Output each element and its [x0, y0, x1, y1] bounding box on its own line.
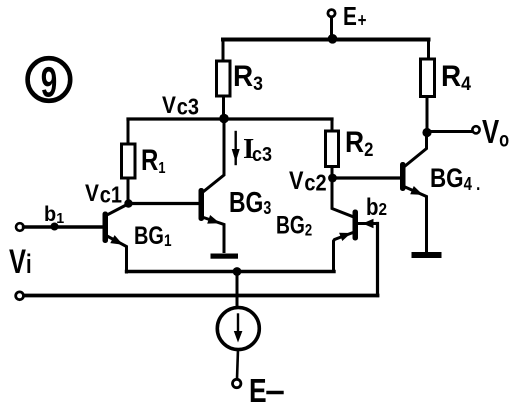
wire rail to R4: [427, 41, 430, 59]
transistor BG4: [400, 133, 480, 252]
terminal Vi lower: [16, 292, 24, 300]
svg-text:Vi: Vi: [9, 244, 32, 281]
terminal b1: [16, 203, 64, 231]
transistor BG1: [103, 204, 172, 272]
svg-text:R3: R3: [233, 60, 263, 94]
wire top supply rail: [223, 38, 429, 42]
svg-text:BG1: BG1: [134, 222, 172, 251]
wire Vc3 bus to R2: [331, 119, 334, 131]
terminal E+: [328, 2, 367, 40]
junction dot emitter bus: [233, 267, 242, 276]
svg-text:BG2: BG2: [276, 211, 312, 240]
svg-text:E: E: [249, 373, 267, 406]
wire rail to R3: [222, 41, 225, 61]
label Vi: [9, 244, 32, 281]
wire Vc2 to BG4 base: [333, 176, 401, 179]
svg-text:c3: c3: [252, 144, 272, 166]
svg-text:Vc3: Vc3: [162, 92, 199, 120]
resistor R2: [326, 124, 374, 166]
resistor R3: [217, 60, 263, 96]
wire Vc3 horizontal bus: [128, 117, 332, 120]
label Vc2: [289, 167, 327, 196]
current source: [217, 308, 259, 350]
circled figure number 9: [28, 58, 71, 106]
wire R3 to Vc3 node: [222, 96, 225, 118]
wire b1 to BG1 base: [24, 225, 103, 228]
wire current source to E- terminal: [237, 350, 238, 380]
wire bus to current source: [236, 272, 239, 308]
svg-text:9: 9: [41, 58, 58, 106]
wire R1 to Vc1: [127, 178, 130, 203]
wire bottom rail: [24, 294, 378, 298]
svg-text:BG4 .: BG4 .: [430, 164, 480, 194]
node b1 junction dot: [51, 223, 59, 231]
svg-text:R2: R2: [345, 124, 373, 160]
svg-text:Vc1: Vc1: [85, 180, 122, 208]
wire R4 to Vo node: [426, 97, 429, 133]
junction under E+: [328, 34, 338, 44]
current arrow Ic3: [232, 132, 272, 166]
ground bar of BG3 emitter: [211, 254, 239, 259]
wire R2 to Vc2: [331, 167, 334, 179]
wire Vc1 to BG3 base: [129, 202, 199, 205]
resistor R1: [122, 142, 166, 178]
wire Vc3 to R1: [127, 119, 130, 144]
svg-text:BG3: BG3: [229, 185, 271, 218]
node Vc1 junction dot: [124, 199, 132, 207]
svg-text:Vc2: Vc2: [289, 167, 327, 196]
resistor R4: [421, 59, 472, 97]
svg-text:Vo: Vo: [482, 114, 509, 151]
terminal E-: [233, 373, 283, 406]
svg-text:E+: E+: [343, 2, 367, 31]
transistor BG3: [199, 119, 272, 252]
svg-text:R4: R4: [441, 60, 472, 94]
svg-text:R1: R1: [141, 142, 165, 177]
terminal Vo: [472, 114, 509, 151]
node Vc3 junction dot: [219, 114, 229, 124]
node Vo junction dot: [422, 128, 431, 137]
node Vc2 junction dot: [328, 174, 337, 183]
ground bar of BG4 emitter: [412, 252, 442, 258]
wire Vo node to terminal: [427, 130, 472, 133]
wire emitter coupling bus: [127, 270, 335, 273]
label Vc1: [85, 180, 122, 208]
transistor BG2: [276, 178, 378, 272]
wire b2 drop to bottom rail: [376, 224, 379, 296]
label b2: [366, 193, 387, 220]
label Vc3: [162, 92, 199, 120]
svg-text:b2: b2: [366, 193, 387, 220]
